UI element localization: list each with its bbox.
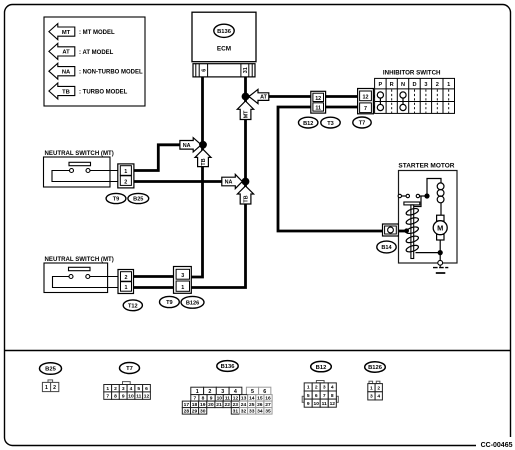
starter contact wiring bbox=[401, 179, 441, 261]
svg-text:5: 5 bbox=[137, 386, 140, 392]
wire NS2 pin1 to T9/B126 pin1 bbox=[134, 286, 174, 289]
svg-text:B12: B12 bbox=[316, 365, 327, 371]
flag NA at node C bbox=[222, 174, 243, 188]
flag TB below node C bbox=[237, 186, 253, 204]
wire ECM pin6 down to node A bbox=[201, 77, 204, 145]
svg-text:B136: B136 bbox=[217, 29, 232, 35]
svg-text:1: 1 bbox=[106, 386, 109, 392]
svg-text:R: R bbox=[390, 82, 394, 88]
legend arrow MT bbox=[49, 24, 115, 40]
wire node B down to node C (MT path) bbox=[244, 97, 247, 182]
pinout B12 label bbox=[311, 361, 332, 371]
inhibitor switch position labels bbox=[379, 82, 451, 88]
svg-text:6: 6 bbox=[201, 69, 207, 72]
svg-text:2: 2 bbox=[53, 385, 56, 391]
svg-text:1: 1 bbox=[45, 385, 48, 391]
starter bottom junction dot bbox=[438, 250, 443, 255]
connector label B12 bbox=[299, 117, 318, 128]
svg-text:T12: T12 bbox=[128, 304, 138, 310]
starter motor box bbox=[399, 171, 458, 264]
flag AT at node B bbox=[249, 89, 269, 103]
svg-text:35: 35 bbox=[265, 409, 271, 415]
pinout B136 connector grid bbox=[182, 387, 272, 414]
svg-text:12: 12 bbox=[144, 393, 150, 399]
neutral switch S1 box bbox=[44, 157, 111, 187]
svg-text:8: 8 bbox=[331, 393, 334, 399]
svg-text:AT: AT bbox=[62, 50, 70, 56]
svg-text:6: 6 bbox=[315, 393, 318, 399]
svg-text:1: 1 bbox=[181, 285, 184, 291]
svg-text:B136: B136 bbox=[221, 364, 236, 370]
svg-text:B14: B14 bbox=[381, 245, 392, 251]
pinout B12 connector grid bbox=[304, 383, 336, 407]
svg-text:2: 2 bbox=[208, 389, 211, 395]
pinout B12 connector tabs bbox=[302, 381, 338, 403]
connector label B126 (lower) bbox=[181, 296, 204, 308]
pinout T7 label bbox=[120, 363, 140, 374]
svg-text:P: P bbox=[379, 82, 383, 88]
wire B12/T3 pin12 to T7 pin12 bbox=[326, 95, 358, 98]
svg-text:TB: TB bbox=[62, 89, 70, 95]
legend arrow AT bbox=[49, 43, 114, 59]
svg-text:31: 31 bbox=[233, 409, 239, 415]
svg-text:2: 2 bbox=[377, 385, 380, 391]
svg-text:1: 1 bbox=[196, 389, 199, 395]
svg-text:B126: B126 bbox=[186, 301, 199, 307]
wire ECM pin31 down to node B bbox=[244, 77, 247, 97]
svg-text:TB: TB bbox=[201, 158, 207, 165]
svg-text:B12: B12 bbox=[303, 121, 313, 127]
svg-text:2: 2 bbox=[315, 385, 318, 391]
svg-text:8: 8 bbox=[114, 393, 117, 399]
wire node B right to B12/T3 pin12 (AT path) bbox=[246, 95, 311, 98]
svg-text:NA: NA bbox=[62, 70, 71, 76]
svg-text:5: 5 bbox=[307, 393, 310, 399]
wire NS1 pin2 right to node C (NA path) bbox=[134, 180, 246, 183]
svg-text:M: M bbox=[437, 223, 443, 232]
svg-text:30: 30 bbox=[200, 409, 206, 415]
svg-text:4: 4 bbox=[130, 386, 133, 392]
svg-text:1: 1 bbox=[447, 82, 450, 88]
connector label T3 bbox=[321, 117, 340, 128]
svg-text:MT: MT bbox=[244, 110, 250, 118]
connector B12/T3 pin 12 bbox=[313, 93, 324, 101]
svg-text:5: 5 bbox=[251, 389, 254, 395]
connector T9/B25 pin 1 bbox=[120, 166, 131, 176]
svg-text:6: 6 bbox=[145, 386, 148, 392]
flag NA at node A bbox=[180, 138, 201, 152]
connector T7 pin 12 bbox=[360, 91, 372, 101]
svg-text:12: 12 bbox=[315, 96, 321, 102]
pinout B136 label bbox=[217, 361, 238, 372]
svg-text:3: 3 bbox=[221, 389, 224, 395]
starter field coil L1 bbox=[437, 183, 444, 203]
node B junction dot bbox=[242, 93, 250, 101]
svg-text:11: 11 bbox=[136, 393, 141, 399]
svg-text:21: 21 bbox=[216, 402, 222, 408]
svg-text:1: 1 bbox=[124, 169, 127, 175]
ECM U1 box bbox=[192, 12, 256, 62]
svg-text:: NON-TURBO MODEL: : NON-TURBO MODEL bbox=[79, 70, 143, 76]
pinout B126 connector tabs bbox=[369, 381, 380, 383]
connector B14 bbox=[383, 224, 399, 236]
pinout B126 connector grid bbox=[368, 384, 383, 400]
svg-text:T7: T7 bbox=[359, 121, 366, 127]
svg-text:D: D bbox=[412, 82, 416, 88]
svg-text:11: 11 bbox=[315, 105, 321, 111]
ground symbol bbox=[433, 265, 448, 273]
starter junction dot D bbox=[424, 193, 429, 198]
svg-text:3: 3 bbox=[181, 273, 184, 279]
svg-text:T7: T7 bbox=[126, 366, 133, 372]
inhibitor switch dashed column markers bbox=[392, 90, 449, 114]
svg-text:MT: MT bbox=[62, 30, 71, 36]
svg-text:32: 32 bbox=[241, 409, 247, 415]
svg-text:22: 22 bbox=[224, 402, 230, 408]
svg-text:B126: B126 bbox=[368, 365, 383, 371]
svg-text:29: 29 bbox=[192, 409, 198, 415]
connector T7 outer bbox=[358, 89, 374, 114]
connector T9/B126 pin 3 bbox=[176, 269, 189, 279]
connector T12 pin 1 bbox=[121, 282, 132, 292]
connector T12 outer bbox=[118, 270, 134, 294]
svg-text:: AT MODEL: : AT MODEL bbox=[79, 50, 114, 56]
svg-text:10: 10 bbox=[128, 393, 134, 399]
neutral switch S2 box bbox=[44, 263, 108, 293]
svg-text:3: 3 bbox=[424, 82, 427, 88]
ECM connector strip bbox=[193, 64, 255, 77]
connector T9/B25 outer bbox=[118, 164, 134, 188]
svg-text:2: 2 bbox=[124, 179, 127, 185]
svg-text:20: 20 bbox=[208, 402, 214, 408]
wire T7 pin12 to inhibitor P contact bbox=[373, 95, 378, 98]
pinout T7 connector tab bbox=[123, 382, 131, 385]
svg-text:4: 4 bbox=[331, 385, 334, 391]
svg-text:12: 12 bbox=[363, 94, 369, 100]
svg-text:2: 2 bbox=[436, 82, 439, 88]
svg-text:9: 9 bbox=[122, 393, 125, 399]
svg-text:2: 2 bbox=[114, 386, 117, 392]
svg-text:ECM: ECM bbox=[217, 46, 231, 53]
svg-text:3: 3 bbox=[370, 394, 373, 400]
pinout B25 label bbox=[40, 363, 62, 375]
svg-text:: MT MODEL: : MT MODEL bbox=[79, 30, 115, 36]
svg-text:NEUTRAL SWITCH (MT): NEUTRAL SWITCH (MT) bbox=[45, 150, 114, 157]
svg-text:4: 4 bbox=[377, 394, 380, 400]
svg-text:34: 34 bbox=[257, 409, 263, 415]
svg-text:3: 3 bbox=[122, 386, 125, 392]
wire B12/T3 pin11 to T7 pin7 bbox=[326, 106, 358, 109]
connector T7 pin 7 bbox=[360, 103, 372, 113]
connector T9/B126 pin 1 bbox=[176, 281, 189, 291]
svg-text:6: 6 bbox=[263, 389, 266, 395]
connector B12/T3 outer bbox=[311, 91, 326, 113]
svg-text:B25: B25 bbox=[45, 367, 56, 373]
legend arrow NA bbox=[49, 63, 143, 79]
svg-text:N: N bbox=[401, 82, 405, 88]
connector T9/B126 outer bbox=[174, 267, 192, 294]
starter motor M symbol bbox=[433, 215, 447, 240]
svg-text:TB: TB bbox=[244, 195, 250, 202]
svg-text:7: 7 bbox=[323, 393, 326, 399]
inhibitor switch table bbox=[375, 78, 455, 113]
starter pull-in coil tap dot bbox=[404, 228, 409, 233]
svg-text:10: 10 bbox=[313, 401, 319, 407]
svg-text:NA: NA bbox=[225, 180, 233, 186]
svg-text:12: 12 bbox=[330, 401, 336, 407]
svg-text:CC-00465: CC-00465 bbox=[481, 442, 513, 449]
svg-text:11: 11 bbox=[322, 401, 327, 407]
part number CC-00465 bbox=[476, 437, 514, 450]
inhibitor switch P contacts bbox=[377, 92, 383, 111]
svg-text:31: 31 bbox=[243, 67, 249, 73]
svg-text:1: 1 bbox=[125, 285, 128, 291]
svg-text:T9: T9 bbox=[113, 197, 120, 203]
connector T9/B25 pin 2 bbox=[120, 176, 131, 186]
wire B12/T3 pin11 left down right to B14 bbox=[278, 107, 383, 231]
neutral switch S2 contacts bbox=[53, 267, 121, 287]
svg-text:4: 4 bbox=[234, 389, 237, 395]
svg-text:9: 9 bbox=[307, 401, 310, 407]
svg-text:NA: NA bbox=[183, 143, 191, 149]
connector label T7 bbox=[353, 117, 371, 128]
flag TB below node A bbox=[195, 149, 211, 166]
pinout T7 connector grid bbox=[104, 385, 151, 400]
legend arrow TB bbox=[49, 83, 128, 99]
svg-text:28: 28 bbox=[184, 409, 190, 415]
wire node A down then left to T9/B126 pin3 (TB path) bbox=[190, 145, 203, 277]
separator line bbox=[5, 350, 510, 352]
wire NS1 pin1 up to node A (NA path) bbox=[134, 145, 203, 171]
starter contact circles bbox=[398, 194, 420, 197]
connector B12/T3 pin 11 bbox=[313, 103, 324, 111]
svg-text:T3: T3 bbox=[327, 121, 334, 127]
svg-text:1: 1 bbox=[370, 385, 373, 391]
svg-text:INHIBITOR SWITCH: INHIBITOR SWITCH bbox=[383, 70, 441, 77]
wire NS2 pin2 to T9/B126 pin3 bbox=[134, 275, 174, 278]
WIRES (thick) bbox=[134, 77, 406, 288]
svg-text:1: 1 bbox=[307, 385, 310, 391]
connector label T9 (lower) bbox=[160, 296, 180, 307]
inhibitor switch N contacts bbox=[400, 92, 406, 111]
starter solenoid plunger stem bbox=[411, 205, 414, 259]
connector label T9 bbox=[106, 193, 126, 203]
svg-text:AT: AT bbox=[260, 95, 267, 101]
node A junction dot bbox=[199, 141, 207, 149]
wire node C down then left to T9/B126 pin1 (TB path) bbox=[190, 182, 246, 288]
svg-text:B25: B25 bbox=[133, 197, 143, 203]
svg-text:7: 7 bbox=[364, 106, 367, 112]
connector label T12 bbox=[123, 300, 142, 311]
neutral switch S1 contacts bbox=[52, 162, 120, 181]
connector T12 pin 2 bbox=[121, 272, 132, 282]
starter ground terminal circle bbox=[438, 260, 443, 265]
pinout B126 label bbox=[365, 362, 386, 372]
svg-text:7: 7 bbox=[106, 393, 109, 399]
svg-text:T9: T9 bbox=[166, 300, 173, 306]
wire T7 pin7 to inhibitor P contact bbox=[373, 106, 378, 109]
connector label B14 bbox=[377, 241, 396, 253]
connector label B25 bbox=[128, 193, 149, 203]
starter solenoid coil helix bbox=[405, 207, 419, 253]
svg-text:STARTER MOTOR: STARTER MOTOR bbox=[398, 163, 454, 170]
flag MT below node B bbox=[237, 101, 253, 120]
node C junction dot bbox=[242, 178, 250, 186]
svg-text:33: 33 bbox=[249, 409, 255, 415]
svg-text:2: 2 bbox=[125, 275, 128, 281]
starter solenoid plunger T-bar bbox=[404, 202, 420, 205]
svg-text:: TURBO MODEL: : TURBO MODEL bbox=[79, 89, 128, 95]
pinout B25 connector bbox=[42, 380, 58, 392]
svg-text:3: 3 bbox=[323, 385, 326, 391]
wire B14 to starter solenoid bbox=[398, 230, 405, 233]
legend box bbox=[44, 17, 145, 106]
svg-text:NEUTRAL SWITCH (MT): NEUTRAL SWITCH (MT) bbox=[45, 256, 114, 263]
